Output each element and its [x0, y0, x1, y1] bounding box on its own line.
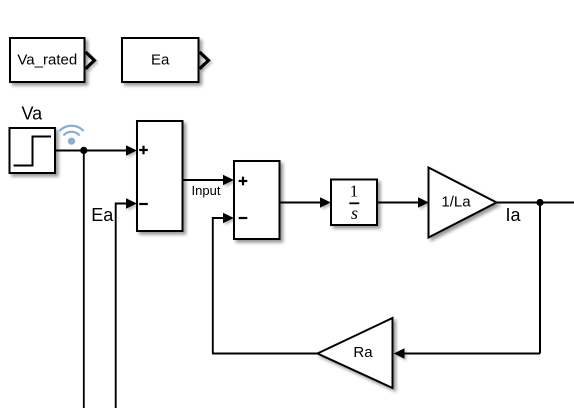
- wire integrator to gain 1/La: [377, 202, 420, 204]
- svg-text:Ia: Ia: [506, 205, 522, 225]
- constant block Ea (top): [122, 38, 199, 82]
- arrowhead into sum2 minus: [223, 213, 234, 224]
- arrowhead into gain 1/La: [418, 197, 429, 208]
- svg-text:Ea: Ea: [151, 52, 170, 69]
- wire right to Ra input: [403, 353, 540, 355]
- svg-text:Va_rated: Va_rated: [17, 52, 77, 69]
- gain block 1/La: [429, 168, 497, 238]
- wire feedback up into sum2 minus: [213, 218, 225, 354]
- wire sum2 to integrator: [280, 202, 323, 204]
- gain block Ra: [318, 318, 393, 388]
- wire from node down to bottom edge: [83, 151, 85, 408]
- svg-text:1: 1: [350, 182, 359, 201]
- arrowhead into sum2 plus: [223, 175, 234, 186]
- sum block 1: [137, 121, 183, 231]
- arrowhead into Ra: [394, 348, 405, 359]
- wire sum1 to sum2: [183, 179, 226, 181]
- svg-text:1/La: 1/La: [441, 194, 471, 211]
- integrator block 1/s: [331, 180, 377, 226]
- step block: [10, 128, 56, 173]
- output port chevron of Ea: [200, 52, 209, 69]
- svg-text:Ra: Ra: [353, 344, 373, 361]
- svg-text:Va: Va: [21, 103, 43, 123]
- svg-text:Ea: Ea: [91, 205, 114, 225]
- wire gain to right edge: [497, 202, 574, 204]
- junction node on Ia wire: [536, 199, 543, 206]
- arrowhead into sum1 minus: [126, 198, 137, 209]
- constant block Va_rated: [10, 38, 85, 82]
- signal logging wifi badge: [60, 126, 83, 145]
- arrowhead into sum1 plus: [126, 145, 137, 156]
- wire from bottom edge up into sum1 minus: [116, 204, 128, 408]
- wire step to sum1 plus: [55, 150, 128, 152]
- junction node on Va wire: [80, 147, 87, 154]
- arrowhead into integrator: [320, 197, 331, 208]
- output port chevron of Va_rated: [86, 52, 95, 69]
- svg-text:s: s: [351, 203, 358, 223]
- wire from Ia node down: [539, 203, 541, 354]
- wire Ra output to feedback corner: [212, 353, 317, 355]
- sum block 2: [234, 161, 280, 239]
- svg-text:Input: Input: [192, 183, 221, 198]
